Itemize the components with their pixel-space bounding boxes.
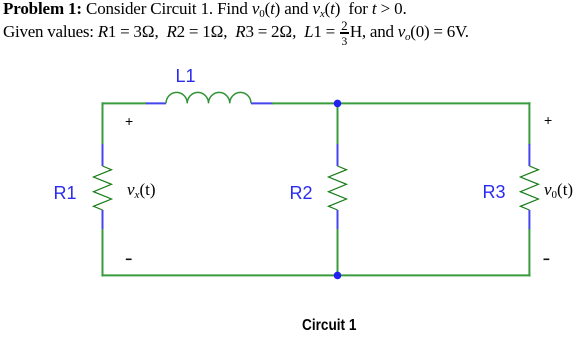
- wire left vertical upper: [102, 102, 104, 145]
- inductor L1: [146, 92, 273, 103]
- wire middle vertical lower: [337, 229, 339, 275]
- svg-text:vx(t): vx(t): [127, 180, 155, 201]
- label R1: [54, 183, 77, 203]
- problem statement text: [3, 0, 583, 43]
- wire right vertical upper: [528, 102, 530, 145]
- wire top left horizontal: [103, 102, 148, 104]
- svg-text:R1: R1: [54, 183, 77, 203]
- wire bottom horizontal: [101, 274, 530, 276]
- label R2: [290, 183, 313, 203]
- label vx(t): [127, 180, 155, 201]
- label L1: [176, 66, 196, 86]
- svg-text:v0(t): v0(t): [544, 180, 573, 201]
- polarity minus right: [544, 259, 550, 261]
- svg-text:+: +: [125, 113, 133, 129]
- polarity plus right: [544, 112, 552, 128]
- caption Circuit 1: [302, 317, 356, 335]
- polarity plus left: [125, 113, 133, 129]
- resistor R2: [329, 144, 347, 230]
- wire left vertical lower: [102, 229, 104, 277]
- resistor R3: [520, 144, 538, 230]
- polarity minus left: [126, 259, 132, 261]
- node B junction dot bottom: [334, 272, 342, 280]
- label R3: [483, 182, 506, 202]
- wire right vertical lower: [528, 229, 530, 277]
- svg-text:R2: R2: [290, 183, 313, 203]
- label vo(t): [544, 180, 573, 201]
- resistor R1: [94, 144, 112, 230]
- wire middle vertical upper: [337, 103, 339, 145]
- svg-text:L1: L1: [176, 66, 196, 86]
- node A junction dot top: [334, 100, 342, 108]
- svg-text:R3: R3: [483, 182, 506, 202]
- wire top right horizontal: [272, 102, 531, 104]
- svg-text:+: +: [544, 112, 552, 128]
